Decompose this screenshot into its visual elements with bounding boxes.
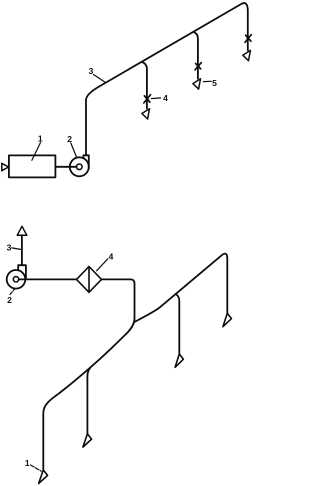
fan 2 circle — [7, 270, 26, 289]
leader 3b — [12, 248, 21, 250]
svg-text:3: 3 — [7, 243, 12, 253]
exhaust inlet arrow left — [83, 434, 92, 447]
exhaust inlet arrow 1 — [39, 470, 48, 484]
mid exhaust branch — [176, 294, 180, 354]
diffuser A — [142, 109, 150, 119]
svg-text:1: 1 — [38, 133, 43, 143]
branch duct A — [142, 62, 147, 109]
filter 4 diamond — [77, 267, 102, 293]
filter 4 center line — [88, 267, 90, 293]
wire: fan 2 to filter — [19, 278, 77, 280]
damper A — [144, 95, 151, 103]
main supply duct riser and header — [86, 3, 248, 155]
fan 2 casing scroll — [18, 265, 26, 279]
leader 2b — [10, 289, 15, 295]
leader 4 — [152, 97, 161, 100]
main exhaust run down-left — [43, 319, 134, 471]
exhaust inlet arrow mid — [175, 354, 183, 367]
discharge riser — [21, 235, 23, 265]
main exhaust run up-right — [134, 254, 227, 322]
exhaust inlet arrow right — [223, 313, 232, 326]
svg-text:2: 2 — [7, 295, 12, 305]
svg-text:5: 5 — [212, 78, 217, 88]
svg-text:4: 4 — [109, 252, 114, 262]
fan U1 circle — [70, 157, 89, 176]
leader 5 — [203, 80, 211, 82]
leader 2 — [71, 143, 77, 157]
diffuser C — [243, 50, 251, 60]
leader 1 — [32, 143, 41, 161]
diffuser B — [193, 79, 201, 89]
wire: filter to junction drop — [102, 279, 135, 318]
exhaust outlet cone 3 — [17, 226, 27, 235]
inlet cone at silencer — [2, 163, 9, 170]
fan U1 hub — [77, 164, 83, 170]
damper B — [195, 63, 201, 70]
branch duct B — [193, 32, 198, 79]
leader 1b — [31, 465, 42, 471]
wire: box to fan U1 — [55, 166, 76, 168]
svg-text:4: 4 — [163, 93, 168, 103]
left exhaust branch — [87, 367, 90, 434]
leader 4b — [97, 259, 108, 271]
fan U1 casing scroll — [83, 155, 88, 168]
damper C — [245, 35, 251, 43]
fan 2 hub — [13, 277, 18, 282]
silencer box 1 — [9, 155, 56, 177]
leader 3 — [94, 75, 106, 83]
svg-text:1: 1 — [25, 458, 30, 468]
svg-text:3: 3 — [89, 66, 94, 76]
svg-text:2: 2 — [67, 134, 72, 144]
